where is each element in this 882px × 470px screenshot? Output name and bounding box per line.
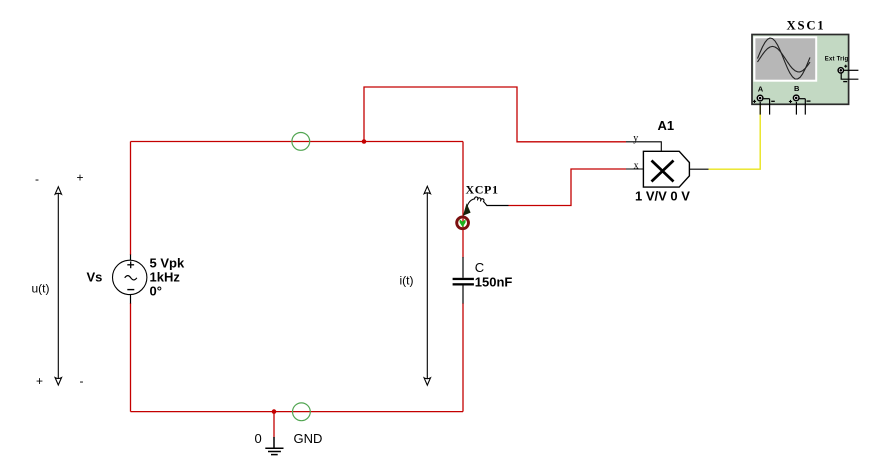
multiplier A1 — [626, 142, 709, 187]
wire ground stub — [273, 412, 275, 438]
svg-text:-: - — [35, 172, 39, 186]
svg-text:A: A — [758, 85, 764, 94]
annotation arrow u(t) — [55, 187, 61, 385]
svg-text:XCP1: XCP1 — [466, 183, 499, 197]
svg-text:-: - — [80, 374, 84, 388]
svg-text:y: y — [633, 133, 638, 144]
svg-text:C: C — [475, 260, 484, 275]
wire current probe to multiplier x input — [509, 169, 627, 206]
oscilloscope XSC1 — [752, 35, 858, 115]
svg-text:5 Vpk: 5 Vpk — [150, 256, 185, 271]
node indicator circle top — [292, 133, 310, 151]
wire left vertical upper — [130, 142, 132, 256]
capacitor C — [453, 257, 474, 304]
svg-text:Vs: Vs — [87, 270, 103, 285]
ground — [265, 437, 283, 455]
voltage source Vs — [113, 255, 147, 304]
current probe XCP1 — [457, 197, 509, 229]
wire yellow scope channel A — [709, 103, 761, 169]
svg-text:x: x — [634, 160, 639, 171]
node junction bottom — [272, 409, 277, 414]
wire top horizontal net — [131, 141, 464, 143]
node indicator circle bottom — [293, 403, 311, 421]
svg-text:A1: A1 — [658, 118, 675, 133]
svg-text:XSC1: XSC1 — [787, 18, 826, 32]
wire left vertical lower — [130, 303, 132, 412]
wire capacitor branch upper — [462, 142, 464, 258]
annotation arrow i(t) — [424, 186, 430, 385]
svg-text:+: + — [77, 171, 84, 185]
svg-text:GND: GND — [294, 431, 323, 446]
svg-text:Ext Trig: Ext Trig — [825, 57, 849, 63]
svg-text:u(t): u(t) — [32, 282, 50, 296]
svg-text:B: B — [794, 84, 800, 93]
svg-text:0: 0 — [255, 431, 262, 446]
wire bottom horizontal net — [131, 411, 464, 413]
svg-text:1kHz: 1kHz — [150, 270, 181, 285]
svg-text:i(t): i(t) — [400, 274, 414, 288]
svg-text:1 V/V 0 V: 1 V/V 0 V — [635, 189, 690, 204]
svg-text:150nF: 150nF — [475, 275, 513, 290]
svg-text:+: + — [36, 374, 43, 388]
wire to multiplier y input — [364, 87, 626, 142]
node junction top — [362, 139, 367, 144]
wire capacitor branch lower — [462, 303, 464, 412]
svg-text:0°: 0° — [150, 284, 162, 299]
